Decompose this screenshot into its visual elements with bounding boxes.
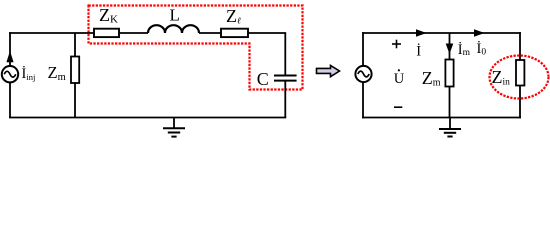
inductor L (148, 25, 199, 33)
arrow: current Im (down) (446, 44, 454, 55)
wire: Zm branch to bottom wire (74, 83, 76, 118)
label U dot (394, 69, 405, 87)
wire: inductor to Zl (199, 32, 221, 34)
wire: right circuit left vertical (362, 32, 364, 118)
ground (left circuit) (163, 118, 185, 137)
current source I_inj circle (2, 66, 18, 82)
arrow: current I along top wire (416, 29, 427, 37)
wire: Zm branch to bottom (right) (449, 87, 451, 119)
svg-text:L: L (170, 6, 180, 25)
wire: Zm branch down from top wire (74, 33, 76, 57)
resistor ZK (94, 29, 119, 37)
resistor Zm (left circuit) (71, 57, 79, 84)
red dashed ellipse around Zin (490, 56, 549, 99)
wire: capacitor to bottom wire (284, 81, 286, 118)
resistor Zm (right circuit) (445, 60, 453, 87)
wire: right circuit bottom horizontal (362, 117, 521, 119)
wire: Zm branch (right circuit) (449, 33, 451, 60)
wire: ZK to inductor (119, 32, 148, 34)
arrow: current I0 along top wire (474, 29, 485, 37)
svg-text:U: U (394, 71, 405, 87)
red dashed boundary around ZK L Zl C (89, 6, 303, 90)
wire: left top horizontal (9, 32, 94, 34)
arrow: injection current direction (up) (6, 51, 13, 62)
wire: right circuit right vertical upper (519, 32, 521, 60)
capacitor C (274, 76, 297, 81)
svg-text:İ: İ (416, 44, 421, 60)
svg-text:C: C (257, 69, 269, 89)
resistor Zin (516, 60, 524, 86)
ground (right circuit) (439, 118, 461, 137)
wire: left circuit bottom horizontal (9, 117, 286, 119)
big implication arrow (317, 65, 340, 76)
wire: left vertical (source branch) (9, 32, 11, 118)
wire: right circuit right vertical lower (519, 86, 521, 119)
label + (392, 40, 401, 49)
resistor Zl (221, 29, 248, 37)
voltage source U circle (355, 66, 371, 82)
wire: right circuit top horizontal (362, 32, 521, 34)
wire: Zl to capacitor corner and down (248, 33, 285, 75)
label minus (394, 106, 402, 108)
